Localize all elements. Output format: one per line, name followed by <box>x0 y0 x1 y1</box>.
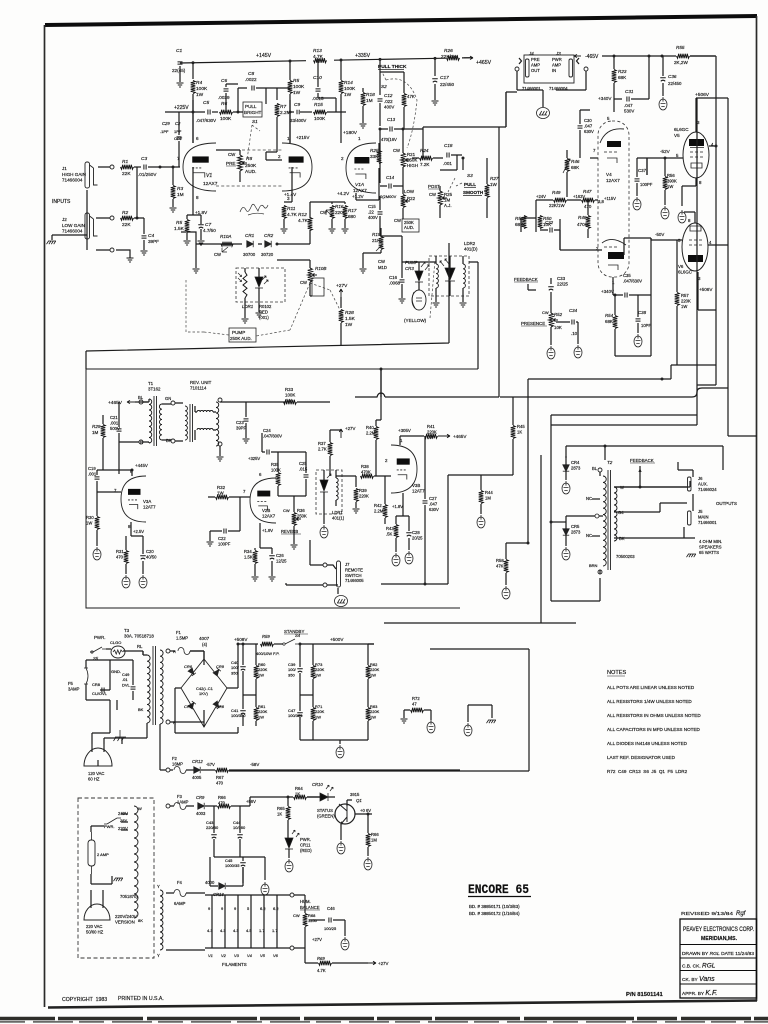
svg-text:CR3: CR3 <box>405 266 414 271</box>
svg-text:APPR. BY K.F.: APPR. BY K.F. <box>682 990 717 997</box>
svg-text:6.2: 6.2 <box>273 906 279 911</box>
svg-text:LAST REF. DESIGNATOR USED: LAST REF. DESIGNATOR USED <box>607 755 676 760</box>
chassis gnd mains <box>114 730 127 741</box>
wire filament V2 <box>224 895 226 948</box>
svg-text:R69: R69 <box>317 956 325 961</box>
svg-text:250K: 250K <box>245 163 257 169</box>
wire bias riser <box>528 649 530 771</box>
svg-text:R72 C49 CR13 S6 J5 Q1 F5: R72 C49 CR13 S6 J5 Q1 F5 LDR2 <box>607 769 688 774</box>
svg-text:-58V: -58V <box>250 762 259 767</box>
svg-text:R3: R3 <box>177 186 183 192</box>
junction c36 <box>661 55 664 58</box>
resistor R27 <box>485 185 490 198</box>
ground jack switch <box>127 258 134 262</box>
svg-text:PRE: PRE <box>226 161 235 166</box>
ground C4 <box>141 251 148 255</box>
svg-text:1.5K: 1.5K <box>345 316 356 322</box>
resistor R43 <box>394 525 399 538</box>
svg-text:4.3: 4.3 <box>220 928 226 933</box>
wiper R46 <box>563 159 570 173</box>
wire V6 grid bus <box>651 239 682 241</box>
potentiometer R22 LOW <box>401 195 410 208</box>
wire T2 brn <box>551 570 600 601</box>
tube V4 envelope <box>598 121 629 277</box>
junction Q1 base <box>287 796 290 799</box>
wire to S4 <box>274 643 283 645</box>
svg-text:R5: R5 <box>176 220 182 226</box>
svg-text:4.7/50: 4.7/50 <box>203 228 216 233</box>
switch S4 <box>285 639 300 644</box>
wire R30 <box>96 492 98 546</box>
wire filament V4 <box>250 895 252 948</box>
wire cathode rail <box>381 583 448 585</box>
wire jack box wiring <box>506 58 586 127</box>
svg-text:1.7: 1.7 <box>259 928 265 933</box>
capacitor C40 <box>240 667 246 670</box>
ground C7 <box>198 241 205 245</box>
svg-text:+4.2V: +4.2V <box>337 191 350 196</box>
resistor R37 <box>328 443 333 456</box>
svg-text:-465V: -465V <box>585 54 599 60</box>
led CR3 <box>415 262 429 282</box>
wire 47K <box>403 72 405 129</box>
wire filament V5 <box>263 895 265 948</box>
svg-text:CW: CW <box>393 148 400 153</box>
svg-text:LDR1: LDR1 <box>242 304 254 309</box>
capacitor C14 <box>389 184 391 189</box>
svg-text:250K AUD.: 250K AUD. <box>230 336 252 341</box>
wire 220 plug <box>91 890 103 900</box>
photoresistor LDR1 <box>243 272 247 298</box>
wire rail extension y649 <box>430 648 529 650</box>
diode CR9b <box>198 803 204 809</box>
svg-text:R47: R47 <box>583 189 592 194</box>
terminal T1 b <box>139 440 143 444</box>
ground R17 <box>342 229 349 233</box>
ground C26 <box>269 577 276 581</box>
wire V3A plate <box>103 470 132 476</box>
node +465V arrow <box>464 56 473 59</box>
junction bus379 <box>661 378 664 381</box>
resistor R59 <box>261 642 274 647</box>
svg-text:70500203: 70500203 <box>616 554 635 559</box>
wire R60 <box>255 644 257 695</box>
wire revunit wires <box>175 403 183 441</box>
svg-text:+508V: +508V <box>234 637 248 642</box>
node +27V trem arrow <box>339 429 342 438</box>
svg-text:REVERB: REVERB <box>281 529 298 534</box>
ground CR4 <box>562 481 570 494</box>
junction C3 out <box>159 166 162 169</box>
ground R30 <box>93 547 101 560</box>
wire R39 gnd <box>355 502 357 508</box>
junction row2a <box>299 643 302 646</box>
svg-text:100/25: 100/25 <box>324 926 337 931</box>
svg-text:BK: BK <box>138 707 144 712</box>
svg-text:1M: 1M <box>92 430 99 435</box>
wire V5 cath2 <box>681 198 683 206</box>
junction J1 tip <box>110 165 114 169</box>
svg-text:2 AMP: 2 AMP <box>97 852 109 857</box>
junction t2 top <box>604 445 607 448</box>
svg-text:R16: R16 <box>335 204 344 209</box>
wire R6 node <box>233 88 247 112</box>
svg-text:R15: R15 <box>314 102 323 108</box>
svg-text:T2: T2 <box>607 460 613 465</box>
svg-text:1.7: 1.7 <box>272 928 278 933</box>
switch S1 PULL BRIGHT <box>243 102 262 117</box>
junction c13b <box>402 128 405 131</box>
wire bus y425 <box>551 415 723 601</box>
svg-text:R17: R17 <box>348 208 357 213</box>
svg-text:ALL DIODES IN4148 UNLESS NOTED: ALL DIODES IN4148 UNLESS NOTED <box>607 741 688 746</box>
capacitor C46 <box>329 918 331 923</box>
svg-text:C32: C32 <box>545 220 554 225</box>
resistor R62 <box>366 666 371 679</box>
svg-text:J4: J4 <box>528 51 534 56</box>
svg-text:47K: 47K <box>407 94 415 99</box>
svg-text:+145V: +145V <box>256 53 272 59</box>
svg-text:CR2: CR2 <box>264 233 274 238</box>
arrow -465V <box>574 54 581 57</box>
transformer T3 secondary HV <box>160 650 163 724</box>
junction plate2 <box>289 111 292 114</box>
wire R18 <box>362 88 364 112</box>
junction J4 ring <box>515 67 519 71</box>
wire CR11 <box>288 820 289 858</box>
ground presence2 <box>574 345 582 358</box>
ground legend2 <box>464 723 472 736</box>
svg-text:+506V: +506V <box>695 92 710 98</box>
resistor R55 <box>677 54 690 59</box>
terminal T3 sec bot <box>166 720 170 724</box>
svg-text:2: 2 <box>341 156 344 161</box>
wire R44 <box>481 475 513 514</box>
ground input jacks <box>47 241 57 244</box>
wire T3 prim wires <box>122 651 147 744</box>
svg-text:FEEDBACK: FEEDBACK <box>630 458 654 463</box>
wire bias run <box>229 770 529 772</box>
resistor R30 <box>95 517 100 530</box>
wire C38 <box>637 295 639 333</box>
wire R64 wires <box>250 797 320 806</box>
svg-text:+27V: +27V <box>345 426 355 431</box>
svg-text:C17: C17 <box>440 75 449 81</box>
wire stage2 cathode <box>309 202 311 244</box>
wire bridge out <box>175 644 258 733</box>
terminal T2 tap mid <box>595 514 599 518</box>
svg-text:R8: R8 <box>246 156 252 162</box>
fuse F3 <box>174 803 186 810</box>
svg-text:S1: S1 <box>252 119 258 124</box>
ground trem <box>193 269 200 273</box>
resistor R64b <box>218 804 231 809</box>
svg-text:S4: S4 <box>295 633 301 638</box>
wire V1 cathode <box>192 167 194 215</box>
resistor R34 <box>253 551 258 564</box>
capacitor C47 <box>297 713 303 716</box>
diode CR2 <box>265 241 271 247</box>
junction b+ node <box>237 643 240 646</box>
svg-text:+325V: +325V <box>248 456 260 461</box>
wire filament rail top <box>205 894 290 896</box>
svg-text:FEEDBACK: FEEDBACK <box>514 277 538 282</box>
svg-text:BL: BL <box>138 395 144 400</box>
ground LDR2 a <box>433 303 440 307</box>
resistor R60 <box>254 666 259 679</box>
capacitor C6 <box>224 89 229 91</box>
svg-text:+445V: +445V <box>135 463 148 468</box>
wire C9 to R15 <box>300 111 312 113</box>
svg-text:R7: R7 <box>280 104 286 110</box>
svg-text:NC: NC <box>586 533 592 538</box>
svg-text:100K: 100K <box>344 86 356 92</box>
wire 240 wiring <box>91 826 112 884</box>
svg-text:C19.001: C19.001 <box>88 466 97 476</box>
svg-text:4 OHM MIN.SPEAKERS65 WATTS: 4 OHM MIN.SPEAKERS65 WATTS <box>699 539 722 555</box>
svg-text:R25: R25 <box>370 148 379 153</box>
wire R66b wires <box>367 814 369 856</box>
svg-text:1W: 1W <box>490 182 498 187</box>
resistor R47 <box>582 198 595 203</box>
svg-text:CR6: CR6 <box>184 664 193 669</box>
wire R42 <box>384 476 386 524</box>
capacitor C8 <box>252 86 254 91</box>
junction jack switch <box>110 248 114 252</box>
wire rvb pot gnd <box>293 540 295 544</box>
wire bus y379 <box>528 365 716 543</box>
resistor R31 <box>124 551 129 564</box>
arrow feedback head <box>638 468 641 472</box>
wire V3A grid <box>118 491 121 493</box>
svg-text:PULL: PULL <box>464 182 476 187</box>
svg-text:+500V: +500V <box>330 637 344 642</box>
svg-text:4.7K: 4.7K <box>317 968 326 973</box>
svg-text:68K: 68K <box>605 319 613 324</box>
svg-text:PUMP: PUMP <box>232 330 245 335</box>
capacitor C44 <box>237 835 243 838</box>
transformer T3 core <box>153 646 156 725</box>
wire +145V rail <box>180 58 472 63</box>
svg-text:V3: V3 <box>234 953 240 958</box>
svg-text:R52: R52 <box>554 312 563 317</box>
wire LDR1 internals <box>245 268 259 302</box>
wire bias tap <box>160 724 173 770</box>
tube V6 6L6GC <box>682 223 708 271</box>
svg-text:3,8: 3,8 <box>598 199 604 204</box>
resistor R73 <box>311 666 316 679</box>
terminal fil bottom <box>290 946 294 950</box>
ground R31 <box>122 575 130 588</box>
resistor R65 <box>286 807 291 820</box>
svg-text:CLGO: CLGO <box>110 640 121 645</box>
svg-text:C34: C34 <box>569 308 578 313</box>
transformer T2 secondary <box>614 487 617 541</box>
svg-text:+27V: +27V <box>336 283 348 289</box>
svg-text:CW: CW <box>228 152 236 157</box>
wire grid stopper drop <box>172 167 174 185</box>
optocoupler LDR1b box <box>316 470 342 514</box>
capacitor C27 <box>423 501 428 503</box>
wire plug wires <box>92 733 122 744</box>
svg-text:C3: C3 <box>141 156 147 162</box>
svg-text:CW: CW <box>429 192 436 197</box>
capacitor C49 <box>131 687 136 689</box>
breaker CB1 <box>111 646 125 658</box>
svg-text:12AX7: 12AX7 <box>353 188 367 193</box>
svg-text:+0 6V: +0 6V <box>360 808 371 813</box>
svg-text:V5: V5 <box>260 953 266 958</box>
svg-text:10K: 10K <box>554 325 562 330</box>
svg-text:BRIGHT: BRIGHT <box>244 110 262 115</box>
jack J4 contact <box>526 59 530 77</box>
svg-text:+27V: +27V <box>312 937 322 942</box>
arrow +465V b <box>438 434 450 437</box>
svg-text:R372.7K: R372.7K <box>318 441 327 451</box>
wire C10 link <box>318 60 336 104</box>
wire R43 C28 <box>396 503 409 552</box>
resistor R54 <box>613 316 618 329</box>
transformer T3 primary <box>147 655 150 723</box>
junction C10 rail <box>317 59 320 62</box>
capacitor C43 <box>211 835 217 838</box>
wire C8 to junction <box>256 88 290 104</box>
ground C22 <box>207 542 214 546</box>
svg-text:22(45): 22(45) <box>172 68 186 73</box>
ground LDR2 b <box>460 303 467 307</box>
svg-text:+1.8V: +1.8V <box>392 504 403 509</box>
jack J7 symbol <box>337 561 341 587</box>
capacitor C19 <box>95 477 100 479</box>
wire T2 nc1 <box>592 498 600 500</box>
plug AC 220V <box>84 904 110 920</box>
resistor R57 <box>675 293 680 306</box>
svg-text:C14: C14 <box>386 175 395 180</box>
svg-text:R4: R4 <box>196 80 202 86</box>
jack J3 contact <box>569 59 573 77</box>
ground V5 <box>678 210 686 223</box>
wire legend bracket <box>468 705 492 722</box>
wire fil wires <box>166 893 205 950</box>
wire R62 R63 <box>340 644 374 740</box>
svg-text:POST: POST <box>428 184 440 189</box>
resistor R19 <box>379 237 384 250</box>
jack J6 AUX <box>688 477 692 491</box>
svg-text:R341.5K: R341.5K <box>244 549 253 559</box>
svg-text:-52V: -52V <box>660 149 671 154</box>
svg-text:33/400V: 33/400V <box>290 118 306 123</box>
svg-text:C36: C36 <box>668 74 677 79</box>
svg-text:30720: 30720 <box>261 252 274 257</box>
wiper R16 <box>326 210 332 216</box>
junction c13a <box>379 128 382 131</box>
resistor R42 <box>383 505 388 518</box>
wire R14 <box>340 60 342 143</box>
transformer T3 filament winding <box>160 890 163 950</box>
wire bus y412 <box>551 98 697 425</box>
svg-text:S3: S3 <box>467 173 473 178</box>
svg-text:4003: 4003 <box>196 811 206 816</box>
svg-text:PULL: PULL <box>245 104 257 109</box>
svg-text:+56V: +56V <box>246 799 256 804</box>
ground R5 <box>184 241 191 245</box>
svg-text:4007: 4007 <box>199 636 210 641</box>
ground R72 <box>401 719 408 723</box>
terminal T1 a <box>139 400 143 404</box>
capacitor C30 <box>578 126 583 128</box>
reverb unit coil L <box>185 406 187 440</box>
wire C46 out <box>333 920 345 936</box>
triode V1A <box>346 143 376 193</box>
capacitor C28 <box>406 533 412 536</box>
svg-text:R18: R18 <box>366 92 375 98</box>
svg-text:V1: V1 <box>206 173 212 179</box>
svg-text:PWR.: PWR. <box>94 635 105 640</box>
junction plate1 <box>192 111 195 114</box>
wire R58 <box>506 543 528 585</box>
svg-text:R5847K: R5847K <box>496 558 504 568</box>
terminal T3 lv tap <box>166 804 170 808</box>
reverb unit coil R <box>216 402 219 446</box>
svg-text:ALL RESISTORS 1/4W UNLESS NOTE: ALL RESISTORS 1/4W UNLESS NOTED <box>607 699 692 704</box>
wire bus y397 <box>355 127 499 397</box>
wire R54 <box>614 295 616 356</box>
junction R5b rail <box>289 60 292 63</box>
transformer T3 240 winding <box>134 806 138 918</box>
wire C17 gnd <box>434 84 436 100</box>
svg-text:NC: NC <box>586 496 592 501</box>
svg-text:1M: 1M <box>366 98 373 104</box>
svg-text:BL: BL <box>592 466 598 471</box>
capacitor C21 <box>117 429 122 431</box>
svg-text:3915: 3915 <box>350 792 360 797</box>
svg-text:W: W <box>138 806 142 811</box>
ground presence1 <box>547 346 555 359</box>
junction bus369 <box>380 368 383 371</box>
wire T2 sec BK <box>614 537 695 539</box>
wire R46 <box>566 150 568 197</box>
titleblock rows <box>680 945 756 985</box>
svg-text:10PF: 10PF <box>641 323 651 328</box>
terminal revunit a <box>218 398 222 402</box>
svg-text:400/10W F.P.: 400/10W F.P. <box>256 651 280 656</box>
box 220V version <box>78 798 154 958</box>
svg-text:1: 1 <box>358 136 361 141</box>
wire x541 drop <box>540 455 542 623</box>
wire R29 <box>102 415 104 470</box>
photoresistor LDR1b <box>336 478 338 500</box>
ground C45 <box>261 882 269 895</box>
capacitor C37 <box>635 179 640 181</box>
capacitor C5 <box>208 110 210 115</box>
wire V1b cathode <box>291 167 293 202</box>
svg-text:C38: C38 <box>638 310 647 315</box>
svg-text:Q1: Q1 <box>356 798 362 803</box>
svg-text:+115V: +115V <box>604 196 616 201</box>
capacitor C4 <box>142 236 147 238</box>
svg-text:33K: 33K <box>370 154 379 159</box>
resistor R24 <box>420 156 433 161</box>
wire jack switch row <box>87 250 130 258</box>
wire C30 <box>580 110 590 158</box>
wire C31 out <box>631 56 649 99</box>
junction V3A plate <box>131 469 134 472</box>
capacitor C45 <box>240 863 246 866</box>
terminal revunit b <box>218 442 222 446</box>
capacitor C20 <box>140 556 146 559</box>
resistor R12 <box>308 218 313 231</box>
wire R48 <box>587 200 589 238</box>
